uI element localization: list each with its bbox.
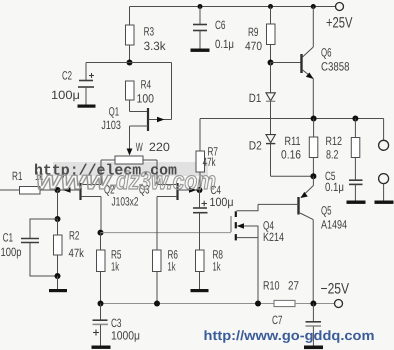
ground C3	[92, 346, 111, 349]
capacitor C1 100p	[1, 219, 58, 276]
resistor R2 47k	[54, 219, 85, 276]
wire pot-right to Q3 drain	[156, 160, 158, 185]
resistor R12 8.2	[326, 119, 360, 180]
terminal -25V	[321, 281, 350, 308]
svg-text:3.3k: 3.3k	[144, 39, 167, 53]
svg-text:470: 470	[245, 39, 262, 53]
node rail-C6	[198, 4, 203, 9]
resistor R1 input	[0, 169, 58, 194]
wire bottom rail left segment	[101, 303, 275, 305]
svg-text:0.1μ: 0.1μ	[325, 180, 344, 194]
svg-text:R2: R2	[69, 229, 80, 243]
svg-text:+25V: +25V	[326, 14, 353, 31]
resistor R6 1k	[153, 248, 179, 304]
node Q3-gate/R7/C4	[197, 187, 203, 193]
capacitor C5 0.1u	[325, 169, 363, 201]
svg-text:C2: C2	[62, 69, 72, 83]
wire top +25V rail	[130, 6, 336, 8]
svg-text:dz3w.com: dz3w.com	[116, 167, 216, 195]
svg-text:Q1: Q1	[109, 105, 120, 119]
terminal output top	[379, 140, 389, 150]
svg-text:R10: R10	[263, 279, 280, 293]
svg-text:R3: R3	[144, 25, 155, 39]
transistor Q4 K214	[231, 204, 284, 303]
resistor R5 1k	[97, 233, 122, 304]
svg-text:1000μ: 1000μ	[111, 329, 140, 343]
svg-text:R11: R11	[285, 134, 301, 148]
ground C7	[304, 346, 323, 350]
node rail-Q6	[311, 4, 316, 9]
node rail/Q5-collector/C7	[310, 301, 316, 307]
wire Q3 source down to R6	[156, 197, 158, 251]
svg-text:1k: 1k	[111, 260, 120, 274]
wire output to terminal	[383, 119, 385, 141]
terminal output bottom	[379, 174, 389, 184]
ground R8	[191, 289, 209, 292]
resistor R11 0.16	[281, 119, 318, 177]
wire output node rail	[200, 118, 384, 120]
svg-text:1k: 1k	[168, 260, 177, 274]
node R9/D1/Q6-base	[268, 60, 274, 66]
watermark elecm highlight box	[53, 162, 208, 176]
capacitor C7	[272, 304, 321, 346]
node rail/Q4-source	[255, 301, 261, 307]
svg-text:27: 27	[288, 279, 299, 293]
wire terminal-bottom to ground	[383, 184, 385, 201]
svg-text:R1: R1	[12, 169, 23, 183]
svg-text:100μ: 100μ	[210, 195, 234, 209]
resistor R3	[126, 7, 167, 63]
resistor R9 470	[245, 7, 275, 63]
wire rail right segment to -25V	[295, 303, 334, 305]
ground output terminal	[375, 201, 394, 204]
resistor R7 47k feedback	[196, 119, 218, 190]
svg-text:W: W	[136, 140, 143, 154]
svg-text:1k: 1k	[213, 260, 222, 274]
resistor R10 27	[263, 279, 299, 307]
svg-text:Q6: Q6	[321, 46, 332, 60]
node C1/R2 bottom	[55, 273, 61, 279]
svg-text:A1494: A1494	[321, 218, 347, 232]
svg-text:R4: R4	[141, 78, 152, 92]
node rail-R5/C3	[98, 301, 104, 307]
transistor Q3 J103	[112, 182, 200, 208]
svg-text:−25V: −25V	[321, 281, 350, 298]
svg-text:C6: C6	[215, 18, 226, 32]
svg-text:100μ: 100μ	[51, 88, 80, 102]
ground C6	[191, 49, 210, 52]
transistor Q2 J103	[58, 182, 115, 200]
resistor R8 1k	[196, 248, 224, 290]
svg-text:8.2: 8.2	[326, 148, 339, 162]
transistor Q5 A1494	[258, 176, 347, 303]
wire tail to Q4 gate	[101, 232, 232, 234]
svg-text:0.1μ: 0.1μ	[215, 37, 234, 51]
wire node-A to C2 and to Q1 gate riser	[86, 62, 172, 64]
svg-text:J103x2: J103x2	[112, 195, 139, 209]
node Q2-source/R5/Q4-gate	[98, 230, 104, 236]
potentiometer W 220 wiper arrow	[127, 149, 133, 156]
ground C2	[78, 105, 96, 108]
capacitor C4 100u	[193, 183, 234, 250]
capacitor C6 0.1u	[193, 7, 234, 52]
node A R3/R4/C2/Q1-gate junction	[127, 60, 133, 66]
svg-text:www.: www.	[36, 165, 118, 195]
node rail-R6	[154, 301, 160, 307]
resistor R4	[126, 78, 155, 112]
diode D2	[249, 135, 275, 177]
node Q5-emitter/R11/D2	[310, 173, 316, 179]
wire Q2-gate down to C1/R2	[57, 190, 59, 219]
potentiometer W 220 body	[101, 140, 170, 164]
node rail-R9	[268, 4, 273, 9]
wire to ground R2	[57, 276, 59, 289]
svg-text:220: 220	[149, 140, 170, 154]
svg-text:J103: J103	[101, 118, 121, 132]
svg-text:http://www.go-gddq.com: http://www.go-gddq.com	[204, 328, 375, 343]
wire D2 to Q5 emitter node	[271, 175, 314, 177]
capacitor C2 100u	[51, 63, 94, 105]
svg-text:K214: K214	[263, 230, 284, 244]
svg-text:0.16: 0.16	[281, 148, 301, 162]
svg-text:100p: 100p	[1, 245, 22, 259]
svg-text:47k: 47k	[69, 246, 85, 260]
svg-text:Q5: Q5	[321, 204, 332, 218]
wire Q2 source down	[100, 197, 103, 233]
ground C5	[347, 201, 366, 204]
ground R2/C1	[49, 289, 67, 292]
svg-text:R9: R9	[248, 25, 259, 39]
svg-text:D1: D1	[249, 91, 262, 105]
diode D1	[249, 63, 275, 135]
node C1/R2 top	[55, 216, 61, 222]
wire pot-left to Q2 drain	[100, 160, 102, 185]
svg-text:100: 100	[137, 92, 155, 106]
node input/Q2 gate	[55, 187, 61, 193]
terminal +25V	[326, 3, 353, 32]
capacitor C3 1000u	[93, 304, 141, 346]
transistor Q6 C3858	[271, 7, 350, 119]
node output/R12	[352, 116, 358, 122]
svg-text:C1: C1	[3, 231, 14, 245]
svg-text:D2: D2	[249, 139, 262, 153]
node output/R11	[311, 116, 317, 122]
svg-text:C7: C7	[272, 313, 283, 327]
svg-text:C3858: C3858	[321, 60, 350, 74]
transistor Q1 J103	[101, 63, 171, 150]
svg-text:R12: R12	[326, 134, 343, 148]
